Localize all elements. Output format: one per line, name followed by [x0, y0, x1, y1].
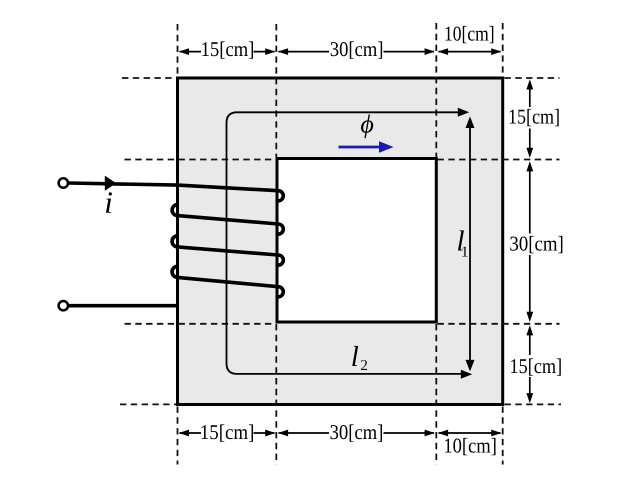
top 15cm dimension shafts	[180, 51, 202, 53]
l1 down arrowhead	[466, 360, 475, 372]
label r15t: 15[cm]	[510, 109, 559, 126]
label bot10: 10[cm]	[445, 438, 496, 455]
label lbl_l2: l	[352, 346, 358, 366]
dashed horizontal at core bottom edge y=404.4	[120, 403, 176, 405]
coil winding on left leg	[69, 183, 284, 306]
label lbl_i: i	[106, 192, 112, 213]
turn 3	[172, 236, 283, 265]
top 10cm dimension shaft	[439, 51, 501, 53]
right 15cm bottom dimension shafts	[529, 334, 531, 355]
turn 4	[172, 266, 283, 297]
core window opening	[277, 159, 436, 323]
label top10: 10[cm]	[446, 26, 494, 43]
dashed horizontal at core top edge y=78	[122, 77, 176, 79]
label top15: 15[cm]	[202, 41, 253, 58]
bottom row	[179, 430, 189, 437]
right 30cm dimension shafts	[529, 170, 531, 234]
dashed vertical at window right edge x=436.3	[435, 23, 437, 157]
label r30: 30[cm]	[510, 236, 562, 253]
right column	[526, 79, 533, 89]
l2 arrowhead on bottom path	[461, 370, 472, 379]
label bot15: 15[cm]	[202, 424, 254, 441]
label lbl_l1: l	[458, 230, 464, 250]
dashed vertical at window left edge x=276.3	[275, 24, 277, 157]
flux arrowhead on top path	[458, 108, 469, 117]
dashed horizontal at window top edge y=159.5	[125, 159, 276, 161]
label lbl_l2s: 2	[361, 360, 367, 370]
label lbl_l1s: 1	[462, 247, 467, 257]
label top30: 30[cm]	[331, 41, 382, 58]
l1 measurement line in right leg	[469, 121, 471, 368]
l1 up arrowhead	[466, 117, 475, 129]
top 30cm dimension shafts	[279, 51, 330, 53]
dimension lines	[180, 52, 530, 433]
label bot30: 30[cm]	[331, 424, 383, 441]
right 15cm top dimension shafts	[529, 88, 531, 107]
exit wire	[69, 304, 178, 308]
label lbl_phi: ϕ	[361, 115, 373, 139]
construction dashed lines	[120, 23, 561, 465]
turn 2	[172, 205, 283, 235]
magnetic core outer body	[178, 78, 503, 405]
turn 1: entry wire and first front diagonal	[69, 183, 284, 201]
top row	[179, 48, 189, 55]
mean flux path loop (left vertical, top and bottom horizontals)	[227, 112, 465, 374]
dashed horizontal at window bottom edge y=323.8	[125, 323, 276, 325]
bottom 30cm dimension shafts	[279, 432, 330, 434]
terminal bottom	[59, 301, 68, 310]
dashed vertical at core right edge x=502.7	[502, 23, 504, 76]
label r15b: 15[cm]	[511, 358, 561, 375]
dimension arrowheads	[179, 48, 533, 436]
current direction arrowhead	[105, 176, 116, 191]
terminal top	[59, 178, 68, 187]
flux direction blue arrow	[339, 146, 382, 149]
bottom 10cm dimension shaft	[439, 432, 501, 434]
bottom 15cm dimension shafts	[180, 432, 202, 434]
dashed vertical at core left edge x=177.5	[177, 24, 179, 76]
